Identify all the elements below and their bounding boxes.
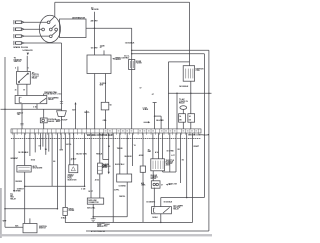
svg-text:18 BLK: 18 BLK bbox=[61, 217, 67, 219]
wire pickup bbox=[86, 27, 132, 29]
off-page arrow bbox=[27, 53, 29, 56]
noise capacitor C1 bbox=[129, 60, 135, 70]
wire elbow bbox=[155, 115, 162, 117]
scan edge artifact bbox=[0, 188, 2, 238]
wire bbox=[102, 133, 104, 159]
wire bottom bus bbox=[65, 222, 113, 224]
wire bbox=[24, 42, 58, 44]
wire bbox=[182, 109, 184, 113]
wire tach bbox=[94, 12, 96, 55]
wire bbox=[126, 133, 128, 174]
svg-text:14: 14 bbox=[179, 115, 181, 118]
wire bbox=[131, 28, 133, 129]
svg-text:18 PPL: 18 PPL bbox=[84, 112, 90, 114]
node junction bbox=[4, 109, 6, 111]
svg-text:BLK/LSD: BLK/LSD bbox=[125, 156, 133, 158]
wire bbox=[29, 133, 31, 156]
svg-text:18 DG: 18 DG bbox=[31, 160, 36, 162]
fuel injector INJ1 bbox=[69, 165, 78, 173]
svg-text:N3: N3 bbox=[182, 159, 184, 161]
svg-text:WHT: WHT bbox=[3, 221, 8, 223]
engine controller connector bar bbox=[11, 129, 201, 133]
wire elbow bbox=[103, 159, 109, 161]
wire bbox=[29, 218, 31, 223]
node junction bbox=[160, 222, 162, 224]
svg-text:14 DG/BLK: 14 DG/BLK bbox=[179, 85, 189, 88]
wire elbow bbox=[163, 171, 176, 173]
starter relay K2 bbox=[23, 224, 37, 233]
svg-text:GRN/WHT: GRN/WHT bbox=[10, 158, 18, 160]
inline box bbox=[101, 102, 109, 110]
spark plug 1 bbox=[14, 20, 24, 24]
wire bbox=[24, 35, 49, 37]
svg-text:G7: G7 bbox=[39, 145, 41, 147]
wire bbox=[126, 182, 128, 217]
ac compressor clutch relay K3 bbox=[152, 207, 172, 214]
svg-text:GAUGE: GAUGE bbox=[48, 120, 55, 123]
wire relay rail bbox=[4, 57, 6, 227]
svg-text:SERVO: SERVO bbox=[115, 59, 121, 61]
wire bbox=[99, 174, 101, 198]
svg-text:INJECTION: INJECTION bbox=[68, 179, 78, 181]
wire bbox=[167, 62, 169, 129]
wire bbox=[182, 122, 184, 129]
rotor contact line bbox=[52, 31, 57, 36]
node junction bbox=[176, 92, 178, 94]
svg-text:POSN SWITCH: POSN SWITCH bbox=[44, 94, 56, 96]
off-page arrow down bbox=[13, 190, 15, 192]
svg-text:14 YEL: 14 YEL bbox=[66, 143, 72, 146]
throttle body sensor block bbox=[151, 159, 165, 171]
switch inner bracket bbox=[18, 97, 20, 102]
svg-text:BLK/LT GRN: BLK/LT GRN bbox=[76, 153, 87, 155]
svg-text:A 17: A 17 bbox=[171, 154, 174, 157]
svg-text:18 WT: 18 WT bbox=[88, 191, 93, 193]
wire bottom return bbox=[86, 230, 209, 232]
svg-text:18 ORG/BLK: 18 ORG/BLK bbox=[18, 152, 29, 154]
svg-text:RD/WT: RD/WT bbox=[194, 146, 199, 148]
node junction bbox=[208, 92, 210, 94]
wire bbox=[158, 133, 160, 159]
wire stub bbox=[26, 84, 28, 95]
off-page arrow right bbox=[144, 121, 149, 123]
wire distributor pickup down bbox=[58, 42, 62, 44]
wire bbox=[56, 133, 58, 209]
ground G1 bbox=[91, 218, 96, 220]
wire bbox=[43, 123, 45, 129]
wire bbox=[112, 133, 114, 222]
wire bbox=[92, 204, 94, 217]
svg-text:MOTOR: MOTOR bbox=[151, 178, 158, 180]
wire bbox=[152, 171, 154, 181]
svg-text:SPARK PLUGS: SPARK PLUGS bbox=[13, 46, 28, 49]
switch box S1 bbox=[15, 96, 47, 104]
svg-text:G7: G7 bbox=[100, 47, 102, 49]
wire bbox=[55, 1, 190, 3]
wire stub bbox=[17, 84, 19, 95]
distributor terminal 1 bbox=[47, 21, 50, 24]
svg-text:18 DG/BLK: 18 DG/BLK bbox=[164, 201, 173, 203]
svg-text:GRN: GRN bbox=[59, 149, 63, 151]
wire bbox=[26, 56, 28, 72]
svg-text:16 BLK: 16 BLK bbox=[152, 217, 158, 219]
node junction bbox=[57, 208, 59, 210]
module box M1 bbox=[87, 55, 111, 74]
wire bbox=[152, 133, 154, 159]
svg-text:FILTER: FILTER bbox=[136, 62, 143, 64]
wire bbox=[84, 133, 86, 186]
svg-text:30: 30 bbox=[15, 89, 17, 91]
distributor cap circle bbox=[39, 15, 60, 42]
wire bbox=[69, 133, 71, 165]
distributor terminal 4 bbox=[49, 35, 52, 38]
wire bbox=[192, 133, 194, 222]
wire bbox=[160, 214, 162, 223]
svg-text:18 BK: 18 BK bbox=[141, 185, 146, 187]
svg-text:G7: G7 bbox=[140, 88, 142, 90]
node junction bbox=[186, 197, 188, 199]
ballast resistor R1 bbox=[17, 166, 31, 173]
off-page arrow down bbox=[108, 172, 110, 174]
node junction bbox=[4, 208, 6, 210]
svg-text:S6: S6 bbox=[45, 149, 47, 151]
svg-text:14: 14 bbox=[189, 115, 191, 118]
wire bus upper bbox=[132, 49, 209, 51]
o2 sensor box B1 bbox=[117, 174, 132, 182]
iac motor M2 bbox=[151, 181, 160, 188]
node junction bbox=[24, 186, 26, 188]
wire bbox=[61, 43, 63, 111]
node junction bbox=[131, 50, 133, 52]
svg-text:BLK/LT BL: BLK/LT BL bbox=[87, 208, 95, 210]
wire bbox=[70, 159, 72, 162]
svg-text:WHT: WHT bbox=[100, 84, 104, 86]
wire bus lower bbox=[132, 53, 205, 55]
wire bbox=[175, 133, 177, 172]
svg-text:6: 6 bbox=[28, 68, 29, 70]
wire coil negative bbox=[190, 81, 192, 114]
wire bbox=[5, 208, 57, 210]
wire bbox=[99, 133, 101, 163]
off-page arrow up bbox=[75, 102, 77, 104]
svg-text:16 DG/BLK: 16 DG/BLK bbox=[125, 43, 135, 45]
wire bbox=[90, 133, 92, 198]
svg-text:RELAY: RELAY bbox=[32, 77, 38, 80]
svg-text:CHOKE: CHOKE bbox=[69, 210, 75, 212]
svg-text:A 14: A 14 bbox=[155, 151, 158, 154]
wire bbox=[64, 133, 66, 207]
inline connector bbox=[140, 166, 145, 172]
wire stub bbox=[103, 50, 105, 55]
wire bbox=[45, 133, 47, 155]
wire bbox=[40, 133, 42, 150]
svg-text:TO A/C SW: TO A/C SW bbox=[169, 183, 178, 186]
spark plug 4 bbox=[14, 41, 24, 45]
wire bbox=[73, 133, 75, 165]
connector oval bbox=[180, 106, 187, 110]
wire bbox=[24, 172, 26, 223]
scan bottom band bbox=[0, 234, 212, 236]
wire stub bbox=[42, 94, 44, 96]
distributor body U1 bbox=[60, 19, 87, 38]
distributor terminal 2 bbox=[42, 28, 45, 31]
wire bbox=[113, 221, 192, 223]
wire bbox=[132, 133, 134, 166]
svg-text:4: 4 bbox=[15, 67, 16, 70]
wire bbox=[142, 133, 144, 166]
wire bbox=[5, 226, 23, 228]
wire bbox=[24, 133, 26, 165]
connector ticks bbox=[20, 122, 23, 124]
wire bbox=[105, 110, 107, 129]
svg-text:ORG: ORG bbox=[103, 120, 107, 122]
wire tach bus bbox=[168, 92, 211, 94]
svg-text:Y9: Y9 bbox=[134, 145, 136, 147]
wire bbox=[160, 198, 162, 207]
svg-text:TN/LSD: TN/LSD bbox=[117, 148, 124, 150]
svg-text:G7: G7 bbox=[152, 94, 154, 96]
wire bbox=[42, 133, 44, 146]
wire rail A bbox=[208, 50, 210, 231]
distributor terminal 3 bbox=[49, 28, 52, 31]
wire stub bbox=[17, 67, 19, 72]
wire stub bbox=[86, 110, 88, 129]
wire bbox=[108, 133, 110, 172]
svg-text:16 PPL: 16 PPL bbox=[114, 190, 119, 192]
svg-text:CONNECTOR: CONNECTOR bbox=[88, 202, 99, 204]
controller pin stubs bbox=[12, 133, 14, 135]
svg-text:WT/BK: WT/BK bbox=[16, 191, 22, 193]
svg-text:DB/YEL: DB/YEL bbox=[119, 196, 125, 198]
rotor contact line bbox=[52, 25, 56, 29]
svg-text:A/C CL: A/C CL bbox=[124, 55, 129, 58]
wire bbox=[176, 93, 178, 129]
svg-text:G5 GRY: G5 GRY bbox=[91, 48, 99, 50]
wire bbox=[162, 171, 164, 172]
wire bbox=[21, 104, 23, 129]
svg-text:C6: C6 bbox=[108, 146, 110, 148]
svg-text:SHUTDOWN: SHUTDOWN bbox=[33, 168, 43, 170]
spark plug 2 bbox=[14, 27, 24, 31]
wire bbox=[24, 21, 47, 23]
svg-text:A5 BK: A5 BK bbox=[139, 154, 145, 157]
svg-text:87: 87 bbox=[23, 89, 25, 91]
svg-text:BK: BK bbox=[179, 120, 182, 122]
svg-text:YEL: YEL bbox=[17, 114, 20, 116]
wire bbox=[169, 133, 171, 172]
wire bbox=[13, 133, 15, 191]
wire bbox=[189, 2, 191, 65]
wire bbox=[34, 133, 36, 152]
svg-text:14 BK/GY: 14 BK/GY bbox=[17, 187, 25, 190]
svg-text:O2 SENS: O2 SENS bbox=[119, 185, 127, 187]
svg-text:C 110: C 110 bbox=[33, 107, 37, 109]
wire bbox=[154, 103, 156, 130]
node junction bbox=[84, 186, 86, 188]
wire bbox=[162, 133, 164, 159]
svg-text:ENGINE CONTROLLER: ENGINE CONTROLLER bbox=[188, 134, 209, 136]
rotor contact line bbox=[50, 17, 54, 21]
wire bbox=[161, 197, 205, 199]
svg-text:S4: S4 bbox=[110, 103, 112, 106]
relay K1 A/C cutout bbox=[17, 71, 31, 84]
wire bbox=[94, 74, 96, 130]
wire bbox=[105, 74, 107, 103]
connector housing bbox=[57, 111, 67, 117]
svg-text:C 148: C 148 bbox=[81, 188, 85, 191]
node junction bbox=[190, 92, 192, 94]
svg-text:DG: DG bbox=[189, 120, 192, 122]
wire iac to relay bbox=[153, 188, 155, 207]
wire bbox=[51, 133, 53, 186]
svg-text:B27: B27 bbox=[72, 110, 75, 112]
svg-text:A 162: A 162 bbox=[95, 179, 99, 182]
diode box D1 bbox=[63, 207, 67, 215]
gauge G1 bbox=[40, 118, 47, 123]
node junction bbox=[131, 53, 133, 55]
node junction bbox=[94, 27, 96, 29]
svg-text:BLU/RED: BLU/RED bbox=[156, 120, 164, 122]
svg-text:B5: B5 bbox=[178, 149, 180, 151]
wire bbox=[93, 216, 127, 218]
svg-text:14 DBL/OR: 14 DBL/OR bbox=[22, 49, 33, 52]
svg-text:DB/ORG: DB/ORG bbox=[16, 181, 23, 183]
wire bbox=[61, 116, 63, 129]
switch blade bbox=[40, 98, 46, 103]
svg-text:DISTRIBUTOR: DISTRIBUTOR bbox=[72, 18, 85, 20]
connector C113 tick bbox=[60, 101, 63, 103]
distributor terminal 5 bbox=[55, 28, 58, 31]
wire bbox=[48, 133, 50, 151]
wire bbox=[142, 172, 144, 222]
wire bbox=[60, 133, 62, 149]
controller pin numbers bbox=[11, 138, 13, 139]
svg-text:TACHOM.: TACHOM. bbox=[91, 8, 99, 11]
wire bbox=[92, 217, 94, 219]
wire bbox=[64, 215, 66, 222]
svg-text:K4: K4 bbox=[53, 160, 55, 163]
spark plug 3 bbox=[14, 34, 24, 38]
data link connector J1 bbox=[87, 198, 103, 204]
wire bbox=[24, 28, 42, 30]
node junction bbox=[92, 216, 94, 218]
wire bbox=[160, 116, 162, 129]
splice box bbox=[179, 114, 186, 123]
svg-text:SWITCH: SWITCH bbox=[14, 61, 22, 63]
wire coil feed bbox=[168, 61, 189, 63]
wire T-top bbox=[153, 102, 157, 104]
wire bbox=[190, 122, 192, 129]
svg-text:SWITCH: SWITCH bbox=[39, 228, 46, 230]
svg-text:18 GY/RD: 18 GY/RD bbox=[167, 151, 175, 153]
svg-text:A/C COMPR: A/C COMPR bbox=[173, 205, 183, 208]
wire bbox=[75, 104, 77, 129]
resistor R2 bbox=[98, 163, 103, 174]
wire bbox=[186, 133, 188, 197]
svg-text:RELAY: RELAY bbox=[179, 101, 185, 104]
ignition coil T1 bbox=[183, 66, 194, 82]
wire rail B bbox=[203, 54, 205, 198]
wire feed bbox=[1, 108, 62, 110]
arrow label bbox=[112, 58, 114, 60]
wire jumper bbox=[25, 185, 85, 187]
wire bbox=[36, 104, 38, 110]
wire bbox=[119, 133, 121, 174]
node junction bbox=[154, 115, 156, 117]
wire bbox=[179, 133, 181, 183]
svg-text:BLK/LT BLU: BLK/LT BLU bbox=[115, 164, 125, 166]
svg-text:DATA LINK: DATA LINK bbox=[88, 199, 97, 202]
svg-text:M: M bbox=[161, 184, 163, 186]
wire coil secondary bbox=[54, 2, 56, 16]
wire gauge feed bbox=[43, 109, 45, 118]
splice box bbox=[188, 114, 195, 123]
